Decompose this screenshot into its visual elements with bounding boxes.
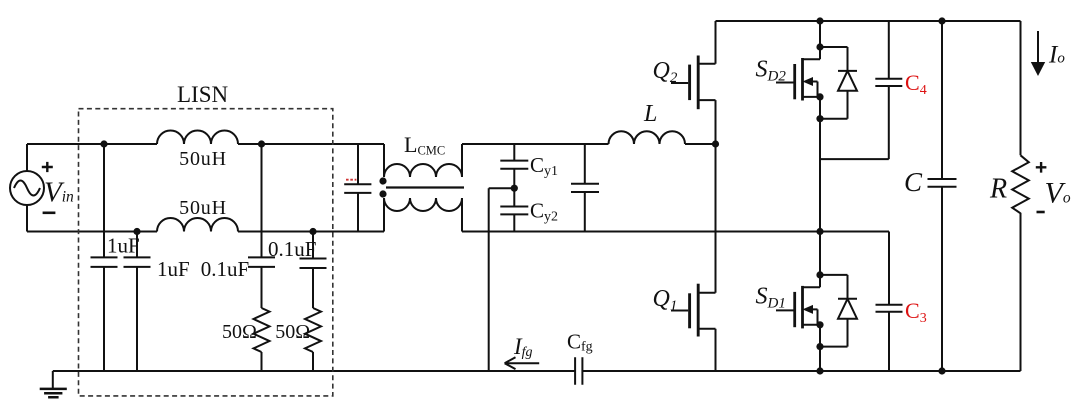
svg-text:Cy1: Cy1 (530, 153, 558, 179)
svg-text:L: L (643, 101, 657, 127)
svg-text:50uH: 50uH (179, 148, 227, 170)
svg-text:0.1uF: 0.1uF (268, 237, 316, 261)
svg-text:C3: C3 (905, 298, 927, 326)
svg-text:50Ω: 50Ω (222, 321, 257, 343)
svg-text:LCMC: LCMC (404, 132, 445, 158)
svg-text:C: C (904, 167, 923, 197)
svg-text:Io: Io (1048, 42, 1065, 69)
svg-text:50Ω: 50Ω (275, 321, 310, 343)
svg-text:SD1: SD1 (756, 284, 786, 312)
svg-text:C4: C4 (905, 70, 927, 98)
svg-text:50uH: 50uH (179, 197, 227, 219)
svg-text:Vo: Vo (1045, 177, 1071, 210)
svg-text:LISN: LISN (177, 82, 229, 107)
svg-text:Vin: Vin (44, 177, 74, 209)
svg-text:1uF: 1uF (107, 234, 140, 258)
svg-text:0.1uF: 0.1uF (201, 257, 249, 281)
svg-text:Q2: Q2 (653, 58, 678, 86)
svg-text:1uF: 1uF (157, 257, 190, 281)
svg-text:R: R (989, 174, 1007, 205)
svg-text:Cfg: Cfg (567, 330, 593, 355)
svg-text:Q1: Q1 (653, 286, 678, 314)
svg-text:SD2: SD2 (756, 57, 787, 85)
svg-text:Cy2: Cy2 (530, 199, 558, 225)
svg-text:Ifg: Ifg (513, 334, 533, 360)
